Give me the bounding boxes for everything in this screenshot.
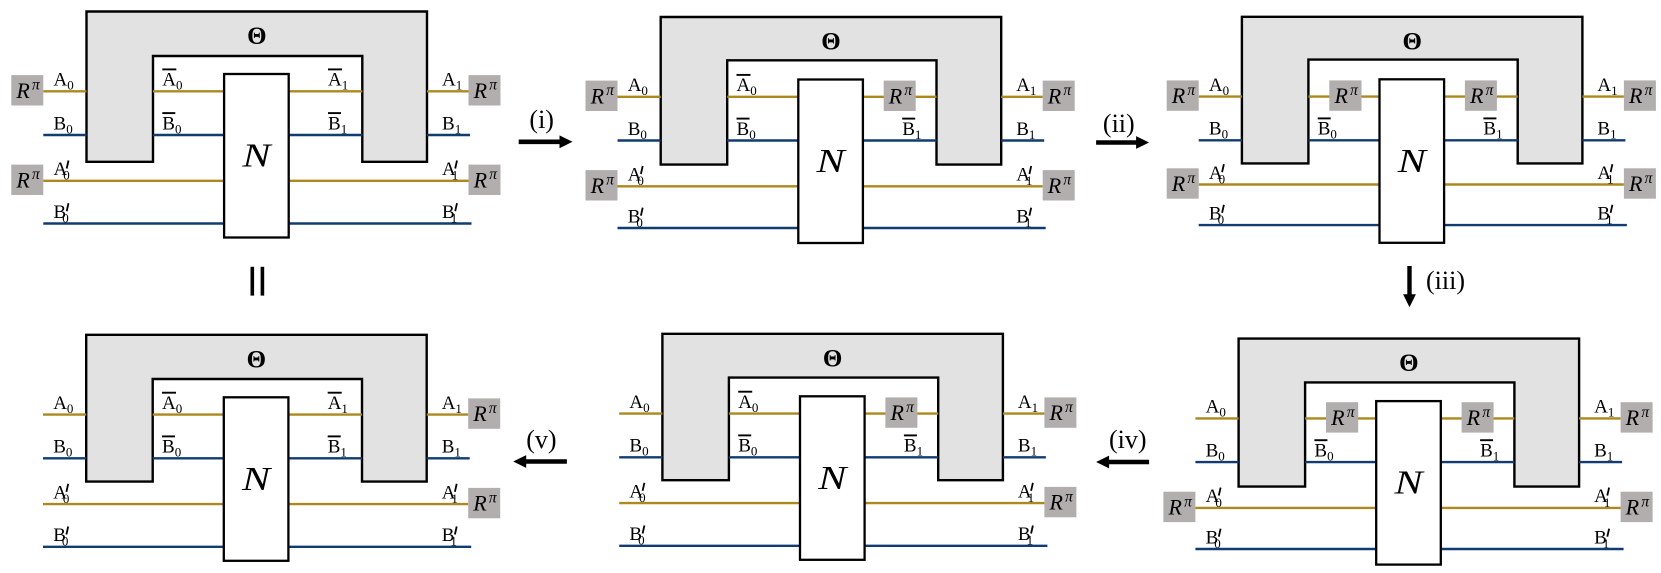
label Bprime1 of diagram 2 (top-middle): [1016, 206, 1031, 230]
label A1 of diagram 3 (top-right): [1597, 75, 1617, 98]
svg-text:B0: B0: [54, 202, 69, 226]
svg-text:R: R: [1171, 171, 1186, 196]
svg-text:B0: B0: [1318, 119, 1337, 142]
wire A0 of diagram 5 (bottom-middle): [619, 412, 662, 414]
wire Abar1 of diagram 5 (bottom-middle): [865, 412, 939, 414]
gate R-pi on Aprime1 output of diagram 2 (top-middle): [1043, 170, 1075, 200]
wire Abar0 of diagram 6 (bottom-right): [1305, 417, 1376, 419]
wire Bbar1 of diagram 3 (top-right): [1444, 139, 1518, 141]
svg-text:B0: B0: [737, 119, 756, 142]
superchannel comb Theta of diagram 5 (bottom-middle): [662, 334, 1003, 480]
arrow (iv) from diagram 6 to diagram 5: [1096, 425, 1149, 469]
wire Abar1 of diagram 6 (bottom-right): [1441, 417, 1515, 419]
label B0 of diagram 5 (bottom-middle): [629, 436, 648, 459]
label Bprime0 of diagram 5 (bottom-middle): [629, 524, 644, 548]
gate R-pi on Aprime1 output of diagram 5 (bottom-middle): [1044, 487, 1076, 517]
wire Aprime0 of diagram 6 (bottom-right): [1195, 507, 1376, 509]
svg-text:R: R: [1047, 173, 1062, 198]
gate R-pi on A0 input of diagram 2 (top-middle): [586, 81, 618, 111]
wire Aprime0 of diagram 1 (top-left): [43, 180, 224, 182]
gate R-pi on Abar1 wire of diagram 6 (bottom-right): [1462, 402, 1494, 432]
svg-text:π: π: [32, 77, 41, 94]
svg-text:π: π: [489, 166, 498, 183]
svg-text:π: π: [489, 77, 498, 94]
wire Bbar1 of diagram 6 (bottom-right): [1441, 461, 1515, 463]
svg-text:π: π: [489, 490, 498, 507]
label A0 of diagram 3 (top-right): [1209, 75, 1229, 98]
svg-text:B1: B1: [1597, 119, 1616, 142]
svg-text:B1: B1: [1594, 527, 1609, 551]
gate R-pi on Abar0 wire of diagram 6 (bottom-right): [1326, 402, 1358, 432]
label Aprime1 of diagram 5 (bottom-middle): [1018, 481, 1034, 505]
svg-text:A1: A1: [442, 70, 462, 93]
wire B1 of diagram 1 (top-left): [427, 134, 470, 136]
superchannel comb Theta of diagram 4 (bottom-left): [86, 335, 427, 482]
wire B1 of diagram 2 (top-middle): [1001, 139, 1044, 141]
svg-text:R: R: [1625, 495, 1640, 520]
wire Aprime0 of diagram 3 (top-right): [1199, 183, 1380, 185]
channel N box of diagram 1 (top-left): [224, 74, 289, 238]
wire B0 of diagram 1 (top-left): [43, 134, 86, 136]
label Bprime0 of diagram 3 (top-right): [1209, 203, 1224, 227]
label Bbar0 of diagram 6 (bottom-right): [1314, 440, 1333, 463]
gate R-pi on Aprime0 input of diagram 3 (top-right): [1167, 168, 1199, 198]
label A1 of diagram 5 (bottom-middle): [1018, 392, 1038, 415]
svg-text:R: R: [472, 491, 487, 516]
svg-text:B1: B1: [328, 113, 347, 136]
equivalence sign between diagram 1 and diagram 4: [252, 267, 262, 296]
svg-text:π: π: [1063, 172, 1072, 189]
gate R-pi on Aprime1 output of diagram 3 (top-right): [1624, 168, 1656, 198]
gate R-pi on Abar1 wire of diagram 5 (bottom-middle): [885, 397, 917, 427]
wire B0 of diagram 6 (bottom-right): [1195, 461, 1238, 463]
wire A0 of diagram 2 (top-middle): [618, 96, 661, 98]
wire Abar1 of diagram 4 (bottom-left): [288, 413, 362, 415]
svg-text:R: R: [1330, 405, 1345, 430]
wire Bbar1 of diagram 5 (bottom-middle): [865, 456, 939, 458]
svg-text:B0: B0: [738, 436, 757, 459]
label A1 of diagram 2 (top-middle): [1016, 75, 1036, 98]
wire Abar0 of diagram 4 (bottom-left): [153, 413, 224, 415]
wire A1 of diagram 5 (bottom-middle): [1003, 412, 1045, 414]
svg-text:N: N: [1393, 464, 1425, 501]
wire B1 of diagram 6 (bottom-right): [1579, 461, 1622, 463]
svg-text:N: N: [241, 461, 273, 498]
svg-text:R: R: [1333, 83, 1348, 108]
wire Bbar1 of diagram 4 (bottom-left): [288, 457, 362, 459]
wire Aprime0 of diagram 4 (bottom-left): [43, 503, 224, 505]
label B0 of diagram 3 (top-right): [1209, 119, 1228, 142]
label Bprime1 of diagram 4 (bottom-left): [442, 525, 457, 549]
svg-text:Θ: Θ: [821, 29, 840, 56]
svg-text:B1: B1: [442, 525, 457, 549]
svg-text:A0: A0: [162, 393, 182, 416]
label Bbar1 of diagram 6 (bottom-right): [1480, 440, 1499, 463]
wire A1 of diagram 6 (bottom-right): [1579, 417, 1621, 419]
svg-text:B0: B0: [53, 437, 72, 460]
label Aprime1 of diagram 2 (top-middle): [1016, 165, 1032, 189]
wire Bprime1 of diagram 6 (bottom-right): [1441, 548, 1624, 550]
svg-text:R: R: [1167, 495, 1182, 520]
superchannel comb Theta of diagram 6 (bottom-right): [1239, 339, 1580, 487]
wire Abar1 of diagram 1 (top-left): [289, 90, 363, 92]
svg-text:R: R: [888, 83, 903, 108]
gate R-pi on A1 output of diagram 2 (top-middle): [1043, 81, 1075, 111]
label Bbar1 of diagram 2 (top-middle): [902, 119, 921, 142]
wire Bbar0 of diagram 4 (bottom-left): [153, 457, 224, 459]
label Bprime1 of diagram 6 (bottom-right): [1594, 527, 1609, 551]
channel N box of diagram 3 (top-right): [1380, 79, 1445, 243]
svg-text:R: R: [15, 78, 30, 103]
svg-text:π: π: [1063, 82, 1072, 99]
label Bbar1 of diagram 3 (top-right): [1483, 118, 1502, 141]
channel N box of diagram 5 (bottom-middle): [800, 396, 865, 560]
svg-text:B0: B0: [629, 436, 648, 459]
gate R-pi on Abar1 wire of diagram 3 (top-right): [1465, 80, 1497, 110]
label Bbar0 of diagram 2 (top-middle): [737, 119, 756, 142]
wire Bprime1 of diagram 3 (top-right): [1444, 224, 1627, 226]
label Aprime0 of diagram 4 (bottom-left): [53, 482, 69, 506]
superchannel comb Theta of diagram 1 (top-left): [87, 12, 428, 162]
svg-text:π: π: [606, 82, 615, 99]
label B1 of diagram 4 (bottom-left): [442, 437, 461, 460]
label Bbar1 of diagram 5 (bottom-middle): [904, 435, 923, 458]
svg-text:R: R: [1171, 83, 1186, 108]
label B1 of diagram 3 (top-right): [1597, 119, 1616, 142]
svg-text:(v): (v): [526, 425, 556, 454]
svg-text:Θ: Θ: [1402, 28, 1421, 55]
label Bprime0 of diagram 2 (top-middle): [628, 206, 643, 230]
svg-text:B1: B1: [1480, 440, 1499, 463]
gate R-pi on Aprime1 output of diagram 1 (top-left): [469, 165, 501, 195]
wire Abar0 of diagram 1 (top-left): [153, 90, 224, 92]
svg-text:B1: B1: [904, 436, 923, 459]
svg-text:π: π: [489, 400, 498, 417]
label Bprime0 of diagram 4 (bottom-left): [53, 525, 68, 549]
label Bbar0 of diagram 5 (bottom-middle): [738, 435, 757, 458]
svg-text:π: π: [1486, 82, 1495, 99]
wire B1 of diagram 5 (bottom-middle): [1003, 456, 1046, 458]
label Aprime0 of diagram 2 (top-middle): [628, 165, 644, 189]
svg-text:Θ: Θ: [1399, 350, 1418, 377]
svg-text:R: R: [1625, 405, 1640, 430]
label Bbar1 of diagram 4 (bottom-left): [328, 436, 347, 459]
svg-text:B1: B1: [1018, 436, 1037, 459]
gate R-pi on A0 input of diagram 3 (top-right): [1167, 80, 1199, 110]
svg-text:A0: A0: [162, 70, 182, 93]
gate R-pi on Aprime0 input of diagram 6 (bottom-right): [1163, 492, 1195, 522]
wire Bbar1 of diagram 1 (top-left): [289, 134, 363, 136]
svg-text:R: R: [1628, 171, 1643, 196]
label A0 of diagram 6 (bottom-right): [1206, 397, 1226, 420]
label B1 of diagram 2 (top-middle): [1016, 119, 1035, 142]
label Bbar1 of diagram 1 (top-left): [328, 113, 347, 136]
svg-text:A0: A0: [1206, 397, 1226, 420]
label A1 of diagram 1 (top-left): [442, 70, 462, 93]
wire B1 of diagram 4 (bottom-left): [427, 457, 470, 459]
svg-text:B0: B0: [1209, 119, 1228, 142]
label Aprime1 of diagram 6 (bottom-right): [1594, 486, 1610, 510]
svg-text:B1: B1: [1483, 119, 1502, 142]
wire Aprime1 of diagram 2 (top-middle): [863, 185, 1043, 187]
wire A0 of diagram 3 (top-right): [1199, 95, 1242, 97]
wire Aprime1 of diagram 3 (top-right): [1444, 183, 1624, 185]
label A0 of diagram 5 (bottom-middle): [629, 392, 649, 415]
gate R-pi on Aprime1 output of diagram 4 (bottom-left): [468, 488, 500, 518]
svg-text:π: π: [1645, 170, 1654, 187]
label Bprime0 of diagram 6 (bottom-right): [1206, 527, 1221, 551]
svg-text:π: π: [1347, 404, 1356, 421]
label B0 of diagram 4 (bottom-left): [53, 437, 72, 460]
svg-text:Θ: Θ: [823, 345, 842, 372]
svg-text:B0: B0: [1206, 527, 1221, 551]
svg-text:B0: B0: [1206, 440, 1225, 463]
wire A1 of diagram 4 (bottom-left): [427, 413, 469, 415]
svg-text:N: N: [817, 460, 849, 497]
label A0 of diagram 1 (top-left): [54, 70, 74, 93]
svg-text:R: R: [590, 83, 605, 108]
svg-text:A1: A1: [1016, 75, 1036, 98]
svg-text:B1: B1: [1018, 524, 1033, 548]
wire Bprime1 of diagram 2 (top-middle): [863, 227, 1046, 229]
wire B1 of diagram 3 (top-right): [1582, 139, 1625, 141]
svg-text:R: R: [889, 400, 904, 425]
svg-text:B0: B0: [628, 206, 643, 230]
gate R-pi on A1 output of diagram 4 (bottom-left): [468, 398, 500, 428]
svg-text:A0: A0: [1209, 75, 1229, 98]
svg-text:A1: A1: [1018, 392, 1038, 415]
wire A1 of diagram 1 (top-left): [427, 90, 469, 92]
label B1 of diagram 5 (bottom-middle): [1018, 436, 1037, 459]
superchannel comb Theta of diagram 3 (top-right): [1242, 17, 1583, 164]
svg-text:B1: B1: [1594, 440, 1613, 463]
label Abar1 of diagram 1 (top-left): [328, 69, 348, 92]
superchannel comb Theta of diagram 2 (top-middle): [661, 17, 1002, 165]
wire A0 of diagram 4 (bottom-left): [43, 413, 86, 415]
svg-text:A0: A0: [54, 70, 74, 93]
svg-text:A0: A0: [629, 392, 649, 415]
svg-text:π: π: [1187, 170, 1196, 187]
svg-text:π: π: [906, 399, 915, 416]
wire Abar0 of diagram 5 (bottom-middle): [729, 412, 800, 414]
svg-text:π: π: [1482, 404, 1491, 421]
svg-text:π: π: [606, 172, 615, 189]
label Abar0 of diagram 5 (bottom-middle): [738, 392, 758, 415]
svg-text:Θ: Θ: [247, 346, 266, 373]
gate R-pi on Aprime1 output of diagram 6 (bottom-right): [1621, 492, 1653, 522]
label Abar0 of diagram 1 (top-left): [162, 69, 182, 92]
svg-text:A1: A1: [328, 393, 348, 416]
svg-text:A1: A1: [328, 70, 348, 93]
label A0 of diagram 4 (bottom-left): [53, 393, 73, 416]
svg-text:B0: B0: [162, 113, 181, 136]
svg-text:B1: B1: [1016, 206, 1031, 230]
label Bbar0 of diagram 1 (top-left): [162, 113, 181, 136]
svg-text:A0: A0: [738, 392, 758, 415]
gate R-pi on A0 input of diagram 1 (top-left): [11, 75, 43, 105]
label A0 of diagram 2 (top-middle): [628, 75, 648, 98]
svg-text:B0: B0: [1314, 440, 1333, 463]
wire Aprime0 of diagram 2 (top-middle): [618, 185, 799, 187]
label Aprime0 of diagram 5 (bottom-middle): [629, 481, 645, 505]
wire Bprime0 of diagram 3 (top-right): [1199, 224, 1380, 226]
wire Bprime0 of diagram 2 (top-middle): [618, 227, 799, 229]
svg-text:N: N: [1397, 143, 1429, 180]
label B0 of diagram 2 (top-middle): [628, 119, 647, 142]
label Aprime0 of diagram 3 (top-right): [1209, 163, 1225, 187]
wire Bprime0 of diagram 1 (top-left): [43, 222, 224, 224]
svg-text:N: N: [241, 137, 273, 174]
label B0 of diagram 1 (top-left): [54, 113, 73, 136]
label Aprime1 of diagram 3 (top-right): [1597, 163, 1613, 187]
gate R-pi on A1 output of diagram 6 (bottom-right): [1621, 402, 1653, 432]
label B1 of diagram 1 (top-left): [442, 113, 461, 136]
svg-text:(i): (i): [529, 105, 554, 134]
label Bbar0 of diagram 3 (top-right): [1318, 118, 1337, 141]
svg-text:B0: B0: [54, 113, 73, 136]
wire B0 of diagram 5 (bottom-middle): [619, 456, 662, 458]
gate R-pi on Abar1 wire of diagram 2 (top-middle): [884, 81, 916, 111]
svg-text:R: R: [590, 173, 605, 198]
label B1 of diagram 6 (bottom-right): [1594, 440, 1613, 463]
wire A0 of diagram 1 (top-left): [43, 90, 86, 92]
svg-text:R: R: [473, 167, 488, 192]
arrow (v) from diagram 5 to diagram 4: [513, 425, 567, 468]
wire Bbar0 of diagram 5 (bottom-middle): [729, 456, 800, 458]
label Aprime0 of diagram 1 (top-left): [54, 159, 70, 183]
svg-text:π: π: [1350, 82, 1359, 99]
label A1 of diagram 6 (bottom-right): [1594, 397, 1614, 420]
channel N box of diagram 2 (top-middle): [798, 80, 863, 244]
svg-text:B1: B1: [1016, 119, 1035, 142]
label Aprime1 of diagram 1 (top-left): [442, 159, 458, 183]
svg-text:R: R: [1048, 490, 1063, 515]
svg-text:π: π: [1641, 404, 1650, 421]
svg-text:Θ: Θ: [247, 23, 266, 50]
svg-text:R: R: [1466, 405, 1481, 430]
gate R-pi on Aprime0 input of diagram 2 (top-middle): [586, 170, 618, 200]
svg-text:R: R: [15, 167, 30, 192]
wire A0 of diagram 6 (bottom-right): [1195, 417, 1238, 419]
svg-text:(iv): (iv): [1109, 425, 1147, 454]
gate R-pi on Aprime0 input of diagram 1 (top-left): [11, 165, 43, 195]
gate R-pi on A1 output of diagram 1 (top-left): [469, 75, 501, 105]
svg-text:B1: B1: [328, 437, 347, 460]
svg-text:A1: A1: [442, 393, 462, 416]
svg-text:π: π: [1065, 489, 1074, 506]
label Abar0 of diagram 2 (top-middle): [737, 75, 757, 98]
svg-text:B1: B1: [442, 113, 461, 136]
svg-text:B1: B1: [442, 437, 461, 460]
svg-text:B0: B0: [162, 437, 181, 460]
wire Bbar0 of diagram 2 (top-middle): [727, 139, 798, 141]
svg-text:π: π: [32, 166, 41, 183]
label Bprime1 of diagram 3 (top-right): [1597, 203, 1612, 227]
svg-text:B1: B1: [1597, 203, 1612, 227]
wire Aprime0 of diagram 5 (bottom-middle): [619, 502, 800, 504]
svg-text:B0: B0: [1209, 203, 1224, 227]
wire Bprime0 of diagram 6 (bottom-right): [1195, 548, 1376, 550]
wire Abar0 of diagram 2 (top-middle): [727, 96, 798, 98]
svg-text:π: π: [1184, 493, 1193, 510]
label Bprime1 of diagram 1 (top-left): [442, 202, 457, 226]
channel N box of diagram 4 (bottom-left): [224, 397, 289, 561]
svg-text:R: R: [472, 401, 487, 426]
arrow (iii) from diagram 3 down to diagram 6: [1403, 266, 1465, 307]
label Aprime0 of diagram 6 (bottom-right): [1206, 486, 1222, 510]
svg-text:A1: A1: [1594, 397, 1614, 420]
svg-text:B1: B1: [902, 119, 921, 142]
svg-text:π: π: [1641, 493, 1650, 510]
label Bbar0 of diagram 4 (bottom-left): [162, 436, 181, 459]
label A1 of diagram 4 (bottom-left): [442, 393, 462, 416]
gate R-pi on A1 output of diagram 3 (top-right): [1624, 80, 1656, 110]
wire B0 of diagram 3 (top-right): [1199, 139, 1242, 141]
svg-text:π: π: [1645, 82, 1654, 99]
channel N box of diagram 6 (bottom-right): [1376, 401, 1441, 564]
wire Abar0 of diagram 3 (top-right): [1308, 95, 1379, 97]
wire B0 of diagram 2 (top-middle): [618, 139, 661, 141]
svg-text:(ii): (ii): [1103, 109, 1135, 138]
wire Bprime1 of diagram 1 (top-left): [289, 222, 472, 224]
wire A1 of diagram 2 (top-middle): [1001, 96, 1042, 98]
svg-text:N: N: [815, 143, 847, 180]
svg-text:B0: B0: [628, 119, 647, 142]
wire Bbar0 of diagram 3 (top-right): [1308, 139, 1379, 141]
wire Bbar1 of diagram 2 (top-middle): [863, 139, 937, 141]
svg-text:A0: A0: [737, 75, 757, 98]
wire Bprime1 of diagram 5 (bottom-middle): [865, 545, 1048, 547]
label B0 of diagram 6 (bottom-right): [1206, 440, 1225, 463]
svg-text:A1: A1: [1597, 75, 1617, 98]
svg-text:(iii): (iii): [1426, 266, 1465, 295]
wire B0 of diagram 4 (bottom-left): [43, 457, 86, 459]
svg-text:R: R: [1047, 83, 1062, 108]
svg-text:B0: B0: [53, 525, 68, 549]
arrow (ii) from diagram 2 to diagram 3: [1096, 109, 1149, 149]
svg-text:B1: B1: [442, 202, 457, 226]
wire Bbar0 of diagram 6 (bottom-right): [1305, 461, 1376, 463]
svg-text:π: π: [1187, 82, 1196, 99]
gate R-pi on Abar0 wire of diagram 3 (top-right): [1329, 80, 1361, 110]
label Abar0 of diagram 4 (bottom-left): [162, 393, 182, 416]
gate R-pi on A1 output of diagram 5 (bottom-middle): [1044, 397, 1076, 427]
svg-text:π: π: [1065, 399, 1074, 416]
svg-text:R: R: [1628, 83, 1643, 108]
svg-text:R: R: [473, 78, 488, 103]
label Bprime1 of diagram 5 (bottom-middle): [1018, 524, 1033, 548]
wire Bbar0 of diagram 1 (top-left): [153, 134, 224, 136]
svg-text:A0: A0: [53, 393, 73, 416]
label Abar1 of diagram 4 (bottom-left): [328, 393, 348, 416]
wire Aprime1 of diagram 1 (top-left): [289, 180, 469, 182]
svg-text:A0: A0: [628, 75, 648, 98]
wire Abar1 of diagram 3 (top-right): [1444, 95, 1518, 97]
wire Abar1 of diagram 2 (top-middle): [863, 96, 937, 98]
wire Bprime0 of diagram 4 (bottom-left): [43, 546, 224, 548]
svg-text:π: π: [904, 82, 913, 99]
wire Bprime1 of diagram 4 (bottom-left): [288, 546, 471, 548]
label Aprime1 of diagram 4 (bottom-left): [442, 482, 458, 506]
svg-text:B0: B0: [629, 524, 644, 548]
wire Aprime1 of diagram 4 (bottom-left): [288, 503, 468, 505]
svg-text:R: R: [1048, 400, 1063, 425]
wire A1 of diagram 3 (top-right): [1582, 95, 1624, 97]
label Bprime0 of diagram 1 (top-left): [54, 202, 69, 226]
wire Aprime1 of diagram 6 (bottom-right): [1441, 507, 1621, 509]
wire Aprime1 of diagram 5 (bottom-middle): [865, 502, 1045, 504]
svg-text:R: R: [1469, 83, 1484, 108]
